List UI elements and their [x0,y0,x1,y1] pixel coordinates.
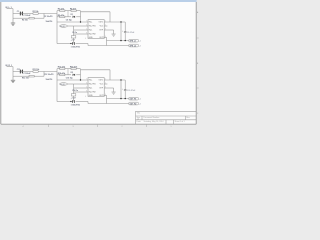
wire input stub 2 [7,67,14,77]
svg-text:IN1- FB1: IN1- FB1 [89,84,96,86]
svg-text:OUT1: OUT1 [99,22,104,24]
wire branch row D2 [57,74,81,76]
svg-text:C16 1u: C16 1u [72,90,78,92]
svg-text:C5 10p: C5 10p [66,19,73,21]
IC1 left pins [68,26,89,36]
IC2 right pins [104,80,125,104]
node vertical x80.5 #2 [80,69,82,80]
wire vertical x121 #2 [120,80,122,99]
svg-text:R5 4.7k: R5 4.7k [58,14,64,17]
wire vertical x125 with capacitor C9 [124,22,126,41]
svg-text:R2 10k: R2 10k [22,20,28,22]
IC2 left pins [68,84,89,94]
svg-text:IN1+: IN1+ [89,80,93,82]
svg-text:C2 10uF/1: C2 10uF/1 [44,16,53,18]
wire output rail y40.6 [107,40,129,42]
port label OUT1 [129,97,139,100]
page border bottom [1,123,196,125]
svg-text:OUT_R1: OUT_R1 [130,99,137,101]
page border left [0,2,2,124]
junction dots out row [120,21,122,23]
wire row A [13,13,57,15]
net oval label AGND 2 [60,83,68,86]
resistor R3 [60,10,65,12]
svg-text:OUT2: OUT2 [99,37,104,39]
svg-text:OUT2: OUT2 [99,95,104,97]
svg-text:AGND: AGND [60,25,66,28]
svg-text:_1: _1 [138,41,141,43]
wire y43.5 row [57,44,129,46]
svg-text:_2: _2 [138,104,141,106]
svg-text:R11 10k: R11 10k [33,69,40,71]
svg-text:Title: Title [137,112,141,115]
svg-text:10uF/16: 10uF/16 [46,21,53,23]
resistor R1 [33,13,38,15]
wire x73.6 down to cap 2 [73,96,75,102]
svg-text:C19 470uF: C19 470uF [127,90,135,92]
svg-text:SPK_L1: SPK_L1 [130,41,136,43]
resistor R14 [71,68,76,70]
capacitor C1 [20,12,23,16]
svg-text:+ C7: + C7 [71,40,75,42]
wire branch row C2 [57,68,81,70]
svg-text:OUT_R2: OUT_R2 [130,103,137,105]
op-amp U2 box [88,78,104,97]
svg-text:C15 10p: C15 10p [66,77,74,79]
page border right [195,2,197,124]
svg-text:_1: _1 [138,99,141,101]
svg-text:2: 2 [122,126,123,128]
svg-text:R1 10k: R1 10k [33,11,39,13]
port label OUT2 [129,102,139,105]
IC2 internal pin text [89,80,104,97]
wire vertical x125 with capacitor C19 [124,80,126,99]
capacitor C11 [20,70,23,74]
svg-text:R4 4.7k: R4 4.7k [70,8,76,11]
node vertical x80.5 [80,11,82,22]
ground gnd1 [11,18,15,25]
resistor R13 [60,68,65,70]
title block text [137,112,190,124]
svg-text:IN2+: IN2+ [89,30,93,32]
resistor R4 [71,10,76,12]
svg-text:+ C17: + C17 [71,98,76,100]
wire feedback top 2 [57,70,110,80]
capacitor C17 polarized [73,100,75,103]
node tick x68 [67,11,69,17]
junction x80.5 on y80 [80,79,81,80]
blue top strip [0,0,197,2]
resistor R11 [33,71,38,73]
net oval label AGND [60,25,68,28]
capacitor C7 polarized [73,42,75,45]
svg-text:IN2+: IN2+ [89,88,93,90]
svg-text:1: 1 [171,126,172,128]
svg-text:D2: D2 [71,72,73,74]
svg-text:R14 4.7k: R14 4.7k [70,66,77,69]
svg-text:C1: C1 [17,11,19,13]
wire branch row C [57,10,81,12]
ground gnd2 [11,76,15,82]
svg-text:3: 3 [73,126,74,128]
svg-text:IN2- FB2: IN2- FB2 [89,34,96,36]
wire y101.5 row [57,102,129,104]
svg-text:Sheet 1 of 1: Sheet 1 of 1 [175,120,185,123]
wire vertical x121 [120,22,122,41]
svg-text:OUT1: OUT1 [99,80,104,82]
svg-text:C9 470uF: C9 470uF [127,32,134,34]
svg-text:C11: C11 [17,69,20,71]
IC1 pin numbers [85,21,106,40]
svg-text:C 100uF: C 100uF [24,73,32,75]
svg-text:C 100uF: C 100uF [24,15,32,17]
resistor R2 [29,17,34,19]
wire input stub [7,9,14,19]
resistor R12 [29,75,34,77]
port label SPK2 [129,44,139,47]
svg-text:R13 4.7k: R13 4.7k [58,66,65,69]
IC1 internal pin text [89,22,104,39]
svg-text:D1: D1 [71,14,73,16]
wire x73.6 down to cap [73,38,75,44]
node vertical x57 long [56,11,58,44]
node tick x68 #2 [67,69,69,75]
wire row A2 [13,71,57,73]
wire branch row D [57,16,81,18]
svg-text:Document Number: Document Number [144,116,160,119]
svg-text:1 100uF/16: 1 100uF/16 [71,46,80,48]
svg-text:Saturday, May 10, 2014: Saturday, May 10, 2014 [144,120,164,123]
svg-text:AGND: AGND [60,83,66,86]
capacitor C16 box [71,94,75,96]
svg-text:SPK_L2: SPK_L2 [130,45,136,47]
svg-text:_2: _2 [138,46,141,48]
border tick marks [49,38,199,127]
wire row B2 [13,72,44,77]
page background [0,0,200,131]
svg-text:R3 4.7k: R3 4.7k [58,8,64,11]
svg-text:10uF/16: 10uF/16 [46,79,53,81]
wire output rail y98.6 [107,98,129,100]
wire row B [13,14,44,19]
svg-text:IN2- FB2: IN2- FB2 [89,92,96,94]
ground below bypass pin 2 [112,88,116,94]
resistor R5 [60,16,65,18]
svg-text:C6 1u: C6 1u [72,32,77,34]
diode D1 [73,16,75,18]
svg-text:1 100uF/16: 1 100uF/16 [71,104,80,106]
svg-text:Rev: Rev [186,117,189,119]
junction x80.5 on y22 [80,21,81,22]
svg-text:C12 10uF/1: C12 10uF/1 [44,74,54,76]
capacitor C6 box [71,36,75,38]
node vertical x57 long 2 [56,69,58,102]
svg-text:R15 4.7k: R15 4.7k [58,72,65,75]
op-amp U1 box [88,20,104,39]
svg-text:IN1+: IN1+ [89,22,93,24]
wire feedback top [57,12,110,22]
IC1 right pins [104,22,125,46]
svg-text:R12 10k: R12 10k [22,78,29,80]
resistor R15 [60,74,65,76]
ground below bypass pin [112,30,116,36]
diode D2 [73,74,75,76]
svg-text:IN1- FB1: IN1- FB1 [89,26,96,28]
IC2 pin numbers [85,79,106,98]
svg-text:4: 4 [23,126,24,128]
port label SPK1 [129,39,139,42]
svg-text:Date:: Date: [137,120,142,123]
